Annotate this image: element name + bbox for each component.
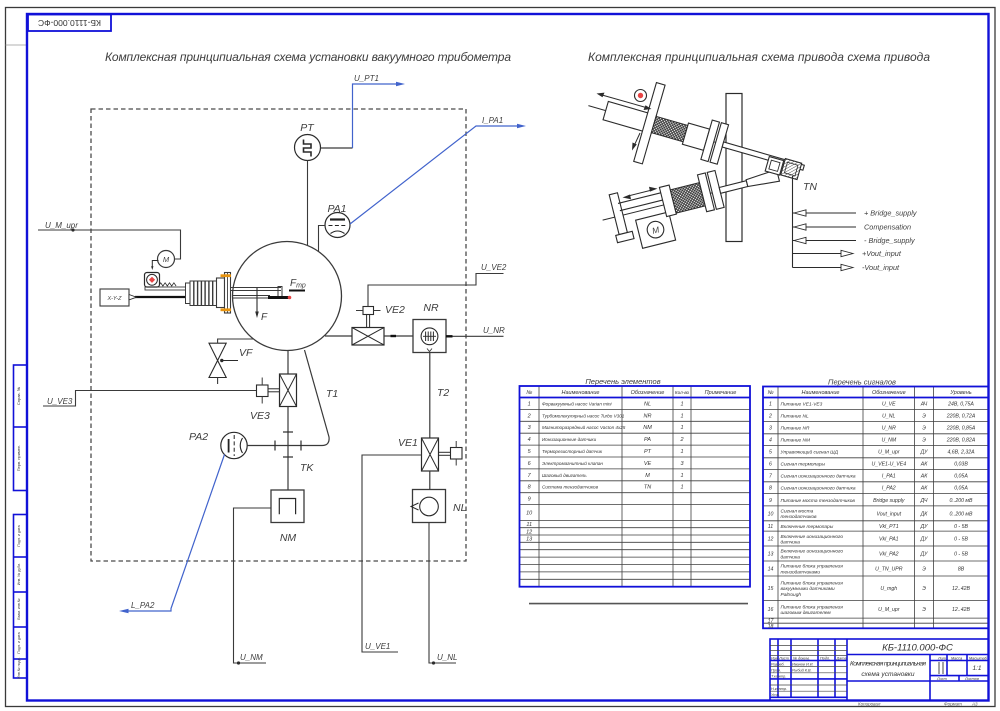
svg-text:Vout_input: Vout_input: [876, 511, 901, 517]
svg-text:VE2: VE2: [385, 304, 405, 316]
svg-text:0 - 5В: 0 - 5В: [954, 552, 968, 558]
force F arrow: [256, 288, 258, 315]
svg-text:Турбомолекулярный насос Turbo: Турбомолекулярный насос Turbo V301: [542, 412, 625, 418]
svg-text:VF: VF: [239, 347, 253, 359]
svg-text:Наименование: Наименование: [802, 390, 840, 396]
svg-text:Магниторазрядный насос VacIon: Магниторазрядный насос VacIon 4x25: [542, 424, 626, 430]
svg-text:PA1: PA1: [327, 203, 346, 215]
svg-text:Пров.: Пров.: [771, 668, 781, 672]
svg-text:Включение термопары: Включение термопары: [781, 524, 834, 530]
svg-text:1:1: 1:1: [972, 665, 981, 672]
svg-text:I_PA1: I_PA1: [882, 474, 896, 480]
svg-text:4,6В, 2,32А: 4,6В, 2,32А: [947, 450, 975, 456]
svg-text:1: 1: [680, 425, 683, 431]
svg-text:КБ-1110.000-ФС: КБ-1110.000-ФС: [882, 643, 953, 654]
svg-text:№ докум.: № докум.: [793, 656, 810, 660]
svg-text:Э: Э: [922, 426, 926, 432]
svg-text:24В, 0,75А: 24В, 0,75А: [947, 401, 974, 407]
svg-text:М: М: [163, 255, 170, 264]
signal line -Vout_input: [793, 267, 842, 269]
rod lower: [232, 295, 270, 297]
lower taper rod: [746, 170, 780, 189]
svg-text:U_NM: U_NM: [881, 438, 896, 444]
slide rail: [145, 287, 186, 290]
svg-text:Подп. и дата: Подп. и дата: [17, 525, 21, 546]
svg-text:U_NR: U_NR: [483, 326, 505, 335]
svg-text:NM: NM: [280, 532, 297, 544]
svg-text:Ионизационные датчики: Ионизационные датчики: [542, 437, 597, 442]
svg-text:ДУ: ДУ: [920, 450, 929, 456]
svg-text:1: 1: [680, 449, 683, 455]
svg-text:T2: T2: [437, 387, 449, 399]
valve VF: [209, 343, 226, 377]
upper cylinder: [603, 101, 656, 133]
svg-text:PA: PA: [644, 437, 651, 443]
svg-text:12..42В: 12..42В: [952, 586, 970, 592]
svg-text:тензодатчиков: тензодатчиков: [781, 514, 818, 520]
svg-text:Форвакуумный насос Varian mini: Форвакуумный насос Varian mini: [542, 400, 613, 406]
svg-text:Питание блока управления: Питание блока управления: [781, 581, 844, 587]
svg-text:Кол-во: Кол-во: [675, 390, 690, 395]
svg-text:9: 9: [528, 497, 531, 503]
svg-text:Электромагнитный клапан: Электромагнитный клапан: [542, 460, 603, 466]
svg-text:Сигнал ионизационного датчика: Сигнал ионизационного датчика: [781, 486, 856, 492]
svg-text:T1: T1: [326, 388, 338, 400]
line under element table: [529, 603, 748, 605]
svg-text:TN: TN: [644, 485, 651, 491]
upper secondary arrow: [634, 133, 640, 146]
svg-text:U_VE1: U_VE1: [365, 642, 390, 651]
sensor PA2: [221, 432, 247, 458]
encoder red dot marker: [635, 90, 647, 102]
svg-text:1: 1: [528, 401, 531, 407]
TN output bus: [792, 176, 794, 268]
signal U_PT1 (blue): [353, 84, 399, 148]
svg-text:0..200 мВ: 0..200 мВ: [950, 511, 973, 517]
svg-text:F: F: [261, 312, 268, 323]
lower thin rod: [719, 181, 748, 194]
svg-text:ДУ: ДУ: [920, 537, 929, 543]
svg-text:Комплексная принципиальная: Комплексная принципиальная: [850, 661, 926, 668]
svg-text:12: 12: [768, 537, 774, 543]
top-left stamp box (rotated doc number): [28, 15, 111, 32]
svg-text:13: 13: [768, 552, 774, 558]
svg-text:Vkl_PT1: Vkl_PT1: [879, 524, 899, 530]
encoder wheel: [145, 273, 160, 288]
svg-text:Листов: Листов: [964, 677, 979, 681]
svg-text:M: M: [645, 473, 650, 479]
svg-text:Перв. примен.: Перв. примен.: [16, 445, 21, 472]
motor M: [158, 251, 175, 268]
svg-text:Э: Э: [922, 438, 926, 444]
svg-text:PT: PT: [300, 122, 315, 134]
wire U_VE1: [362, 455, 422, 652]
svg-text:Подп. и дата: Подп. и дата: [17, 632, 21, 653]
svg-text:Лит.: Лит.: [937, 656, 947, 660]
svg-text:Изм Лист: Изм Лист: [771, 656, 789, 660]
chamber flange plates: [217, 278, 225, 308]
svg-text:Справ. №: Справ. №: [16, 387, 21, 405]
svg-text:Комплексная принципиальная схе: Комплексная принципиальная схема привода…: [588, 50, 930, 64]
motor-encoder link: [152, 261, 158, 269]
svg-text:ДУ: ДУ: [920, 524, 929, 530]
svg-text:Подп.: Подп.: [820, 656, 830, 660]
svg-text:ДК: ДК: [920, 511, 929, 517]
svg-text:2: 2: [768, 414, 772, 420]
signal line +Vout_input: [793, 253, 842, 255]
lower base plate: [609, 193, 627, 235]
svg-text:Терморезисторный датчик: Терморезисторный датчик: [542, 448, 603, 454]
svg-text:Управляющий сигнал ШД: Управляющий сигнал ШД: [781, 449, 839, 456]
svg-text:PA2: PA2: [189, 431, 208, 443]
svg-text:Питание NL: Питание NL: [781, 414, 810, 420]
svg-text:U_M_upr: U_M_upr: [878, 607, 900, 613]
svg-text:Bridge supply: Bridge supply: [873, 498, 905, 504]
svg-text:0 - 5В: 0 - 5В: [954, 524, 968, 530]
wire U_NM: [234, 508, 272, 663]
svg-text:L_PA2: L_PA2: [131, 601, 155, 610]
signal line Compensation: [793, 226, 857, 228]
svg-text:Формат: Формат: [944, 702, 962, 707]
svg-text:+Vout_input: +Vout_input: [862, 249, 902, 258]
svg-text:Перечень сигналов: Перечень сигналов: [828, 378, 896, 387]
svg-text:вакуумными датчиками: вакуумными датчиками: [781, 586, 836, 592]
svg-text:10: 10: [768, 511, 774, 517]
chamber wall flange orange seals: [221, 274, 232, 277]
svg-text:NL: NL: [644, 401, 651, 407]
svg-text:тензодатчиками: тензодатчиками: [781, 569, 821, 575]
svg-text:220В, 0,82А: 220В, 0,82А: [946, 438, 976, 444]
upper guide arrow double: [602, 95, 646, 108]
svg-text:9: 9: [769, 498, 772, 504]
svg-text:4: 4: [528, 437, 531, 443]
lower bellows hatched: [670, 183, 705, 214]
svg-text:+ Bridge_supply: + Bridge_supply: [864, 209, 918, 218]
lower motor box: [636, 212, 676, 248]
svg-text:U_TN_UPR: U_TN_UPR: [875, 567, 903, 573]
wire U_M_upr: [38, 230, 181, 259]
svg-text:8В: 8В: [958, 567, 965, 573]
left margin stamp boxes group 2: [14, 515, 28, 679]
svg-text:U_NL: U_NL: [882, 414, 895, 420]
svg-text:№: №: [768, 390, 774, 396]
svg-text:2: 2: [679, 437, 683, 443]
svg-text:Vkl_PA2: Vkl_PA2: [879, 552, 899, 558]
svg-text:-Vout_input: -Vout_input: [862, 263, 900, 272]
lower foot: [616, 231, 634, 242]
svg-text:Сигнал моста: Сигнал моста: [781, 509, 814, 515]
upper bellows hatched: [651, 116, 687, 141]
wire PT to chamber: [307, 161, 309, 246]
svg-text:3: 3: [769, 426, 772, 432]
svg-text:U_NM: U_NM: [240, 653, 263, 662]
wire PT right: [321, 147, 353, 149]
svg-text:PT: PT: [644, 449, 652, 455]
svg-text:Включение ионизационного: Включение ионизационного: [781, 534, 844, 540]
svg-text:АК: АК: [920, 462, 928, 468]
lower guide rods: [618, 193, 661, 204]
X-Y-Z stage box: [100, 289, 129, 306]
lower coupler plate: [659, 185, 676, 217]
svg-text:12..42В: 12..42В: [952, 607, 970, 613]
svg-text:1: 1: [680, 401, 683, 407]
svg-text:Питание блока управления: Питание блока управления: [781, 604, 844, 610]
svg-text:11: 11: [768, 524, 773, 530]
wire PA1 to chamber: [319, 226, 326, 253]
svg-text:Включение ионизационного: Включение ионизационного: [781, 549, 844, 555]
svg-text:TK: TK: [300, 462, 314, 474]
svg-text:U_PT1: U_PT1: [354, 74, 379, 83]
svg-text:U_NL: U_NL: [437, 653, 457, 662]
svg-text:I_PA2: I_PA2: [882, 486, 896, 492]
pump NR: [413, 320, 446, 353]
rod bracket: [278, 287, 282, 298]
svg-text:Питание блока управления: Питание блока управления: [781, 564, 844, 570]
upper flange plates: [701, 120, 720, 161]
stage arrow: [129, 295, 137, 300]
svg-text:VE3: VE3: [250, 410, 270, 422]
svg-text:VE1: VE1: [398, 437, 418, 449]
sensor PT: [295, 135, 321, 161]
dashed installation boundary box: [91, 109, 466, 561]
svg-text:18: 18: [768, 624, 774, 630]
valve VE1: [422, 438, 439, 471]
svg-text:10: 10: [526, 511, 533, 517]
svg-text:U_VE1-U_VE4: U_VE1-U_VE4: [871, 462, 906, 468]
pipe chamber to VE2: [325, 335, 352, 337]
svg-text:0 - 5В: 0 - 5В: [954, 537, 968, 543]
svg-text:NM: NM: [643, 425, 652, 431]
svg-text:NL: NL: [453, 502, 467, 514]
wire U_VE2: [368, 274, 504, 307]
valve VE2: [352, 328, 384, 346]
svg-text:0..200 мВ: 0..200 мВ: [950, 498, 973, 504]
pipe T2: [429, 353, 431, 439]
svg-text:U_VE3: U_VE3: [47, 397, 73, 406]
svg-text:U_M_upr: U_M_upr: [45, 221, 78, 230]
svg-text:АК: АК: [920, 474, 928, 480]
svg-text:схема установки: схема установки: [861, 671, 915, 678]
svg-text:АК: АК: [920, 486, 928, 492]
svg-text:Лист: Лист: [936, 677, 947, 681]
svg-text:Э: Э: [922, 567, 926, 573]
fold mark line left margin: [6, 44, 28, 46]
svg-text:Питание NR: Питание NR: [781, 426, 811, 432]
svg-text:220В, 0,85А: 220В, 0,85А: [946, 426, 976, 432]
svg-text:U_VE2: U_VE2: [481, 263, 507, 272]
svg-text:А3: А3: [971, 702, 978, 707]
pump NM: [271, 490, 304, 523]
bellows neck: [186, 283, 191, 304]
svg-text:Т.контр.: Т.контр.: [771, 675, 786, 679]
pump NL: [413, 490, 446, 523]
lower guide arrow double: [628, 190, 652, 196]
svg-text:0,03В: 0,03В: [954, 462, 968, 468]
svg-text:ДЧ: ДЧ: [919, 498, 928, 504]
svg-text:Наименование: Наименование: [562, 390, 600, 396]
sensor head TN: [765, 154, 802, 180]
upper thin rod: [722, 142, 804, 170]
vacuum chamber: [233, 242, 342, 351]
valve VE3: [287, 351, 289, 374]
svg-text:шаговым двигателем: шаговым двигателем: [781, 610, 832, 616]
signal line + Bridge_supply: [793, 212, 857, 214]
svg-text:Н.контр.: Н.контр.: [771, 687, 787, 691]
svg-text:Иванов И.И.: Иванов И.И.: [792, 662, 814, 666]
svg-text:8: 8: [769, 486, 772, 492]
vertical mounting plate: [726, 94, 742, 242]
svg-text:220В, 0,72А: 220В, 0,72А: [946, 414, 976, 420]
svg-text:16: 16: [768, 607, 774, 613]
svg-text:TN: TN: [803, 181, 817, 193]
signal I_PA1 (blue): [350, 126, 519, 224]
svg-text:Обозначение: Обозначение: [872, 390, 906, 396]
svg-text:датчика: датчика: [781, 554, 801, 560]
svg-text:I_PA1: I_PA1: [482, 116, 503, 125]
friction sample bar: [268, 296, 289, 299]
svg-text:1: 1: [680, 413, 683, 419]
svg-text:U_NR: U_NR: [882, 426, 896, 432]
svg-text:2: 2: [527, 413, 531, 419]
svg-text:14: 14: [768, 567, 774, 573]
svg-text:Питание моста тензодатчиков: Питание моста тензодатчиков: [781, 498, 856, 504]
svg-text:Питание VE1-VE3: Питание VE1-VE3: [781, 401, 823, 407]
pipe VE1-NL: [429, 471, 431, 490]
svg-text:Взам. инв.№: Взам. инв.№: [17, 598, 21, 619]
lower actuator assembly: [597, 154, 787, 256]
pipe VE2-NR: [384, 335, 413, 337]
svg-text:датчика: датчика: [781, 539, 801, 545]
lower flange plates: [697, 173, 714, 212]
upper cross plate: [634, 83, 665, 164]
svg-text:Vkl_PA1: Vkl_PA1: [879, 537, 899, 543]
svg-text:- Bridge_supply: - Bridge_supply: [864, 236, 916, 245]
upper actuator assembly: [577, 66, 815, 207]
svg-text:АЧ: АЧ: [920, 401, 928, 407]
svg-text:ДУ: ДУ: [920, 552, 929, 558]
svg-text:Комплексная принципиальная схе: Комплексная принципиальная схема установ…: [105, 50, 511, 64]
svg-text:Э: Э: [922, 607, 926, 613]
spring zigzag: [159, 283, 177, 286]
signal L_PA2 (blue): [128, 455, 225, 612]
svg-text:1: 1: [680, 473, 683, 479]
svg-text:1: 1: [680, 485, 683, 491]
svg-text:5: 5: [769, 450, 772, 456]
svg-text:Шаговый двигатель: Шаговый двигатель: [542, 472, 587, 478]
svg-text:U_VE: U_VE: [882, 401, 896, 407]
rod upper (sample holder): [231, 287, 281, 289]
svg-text:Разраб.: Разраб.: [771, 662, 785, 666]
svg-text:Сигнал ионизационного датчика: Сигнал ионизационного датчика: [781, 474, 856, 480]
svg-text:Копировал: Копировал: [858, 702, 881, 707]
svg-text:Утв.: Утв.: [771, 693, 780, 697]
svg-text:Перечень элементов: Перечень элементов: [585, 377, 660, 386]
svg-text:Система тензодатчиков: Система тензодатчиков: [542, 485, 599, 490]
wire U_VE3: [43, 391, 257, 407]
svg-text:NR: NR: [423, 302, 439, 314]
svg-text:Обозначение: Обозначение: [631, 390, 665, 396]
svg-text:15: 15: [768, 586, 774, 592]
svg-text:Рыбий К.В.: Рыбий К.В.: [792, 668, 812, 672]
contact red dot: [288, 296, 292, 300]
svg-text:11: 11: [526, 522, 532, 528]
svg-text:Compensation: Compensation: [864, 223, 911, 232]
svg-text:NR: NR: [644, 413, 652, 419]
wire U_NR: [446, 335, 504, 337]
svg-text:0,05А: 0,05А: [954, 474, 968, 480]
svg-text:4: 4: [769, 438, 772, 444]
signal line - Bridge_supply: [793, 240, 857, 242]
left margin stamp boxes group 1: [14, 365, 28, 491]
pipe PA2 to T1: [247, 350, 329, 446]
svg-text:Дата: Дата: [836, 656, 847, 660]
svg-text:Э: Э: [922, 414, 926, 420]
sensor PA1: [325, 213, 350, 238]
svg-text:Paltrough: Paltrough: [781, 592, 802, 598]
svg-text:Инв. № дубл.: Инв. № дубл.: [17, 563, 21, 585]
pipe VE3 to NM with TK: [287, 407, 289, 491]
svg-text:0,05А: 0,05А: [954, 486, 968, 492]
svg-text:Сигнал термопары: Сигнал термопары: [781, 462, 826, 468]
svg-text:Примечание: Примечание: [705, 390, 737, 396]
svg-text:13: 13: [526, 537, 533, 543]
upper cylinder 2: [682, 123, 709, 150]
svg-text:Питание NM: Питание NM: [781, 438, 811, 444]
actuator thick rod (under bellows): [135, 296, 223, 298]
bellows corrugations: [190, 281, 217, 306]
svg-text:КБ-1110.000-ФС: КБ-1110.000-ФС: [38, 18, 101, 28]
svg-text:Инв.№ подл.: Инв.№ подл.: [17, 657, 21, 678]
svg-text:6: 6: [769, 462, 772, 468]
svg-text:U_M_upr: U_M_upr: [878, 450, 900, 456]
svg-text:1: 1: [769, 401, 772, 407]
svg-text:№: №: [526, 390, 532, 396]
svg-text:Масса: Масса: [951, 656, 962, 660]
svg-text:Масштаб: Масштаб: [969, 656, 988, 660]
svg-text:Э: Э: [922, 586, 926, 592]
wire U_NL: [429, 523, 456, 664]
svg-text:U_mgh: U_mgh: [880, 586, 897, 592]
svg-text:Уровень: Уровень: [949, 390, 971, 396]
svg-text:VE: VE: [644, 461, 652, 467]
svg-text:X-Y-Z: X-Y-Z: [107, 296, 123, 302]
svg-text:12: 12: [526, 529, 532, 535]
